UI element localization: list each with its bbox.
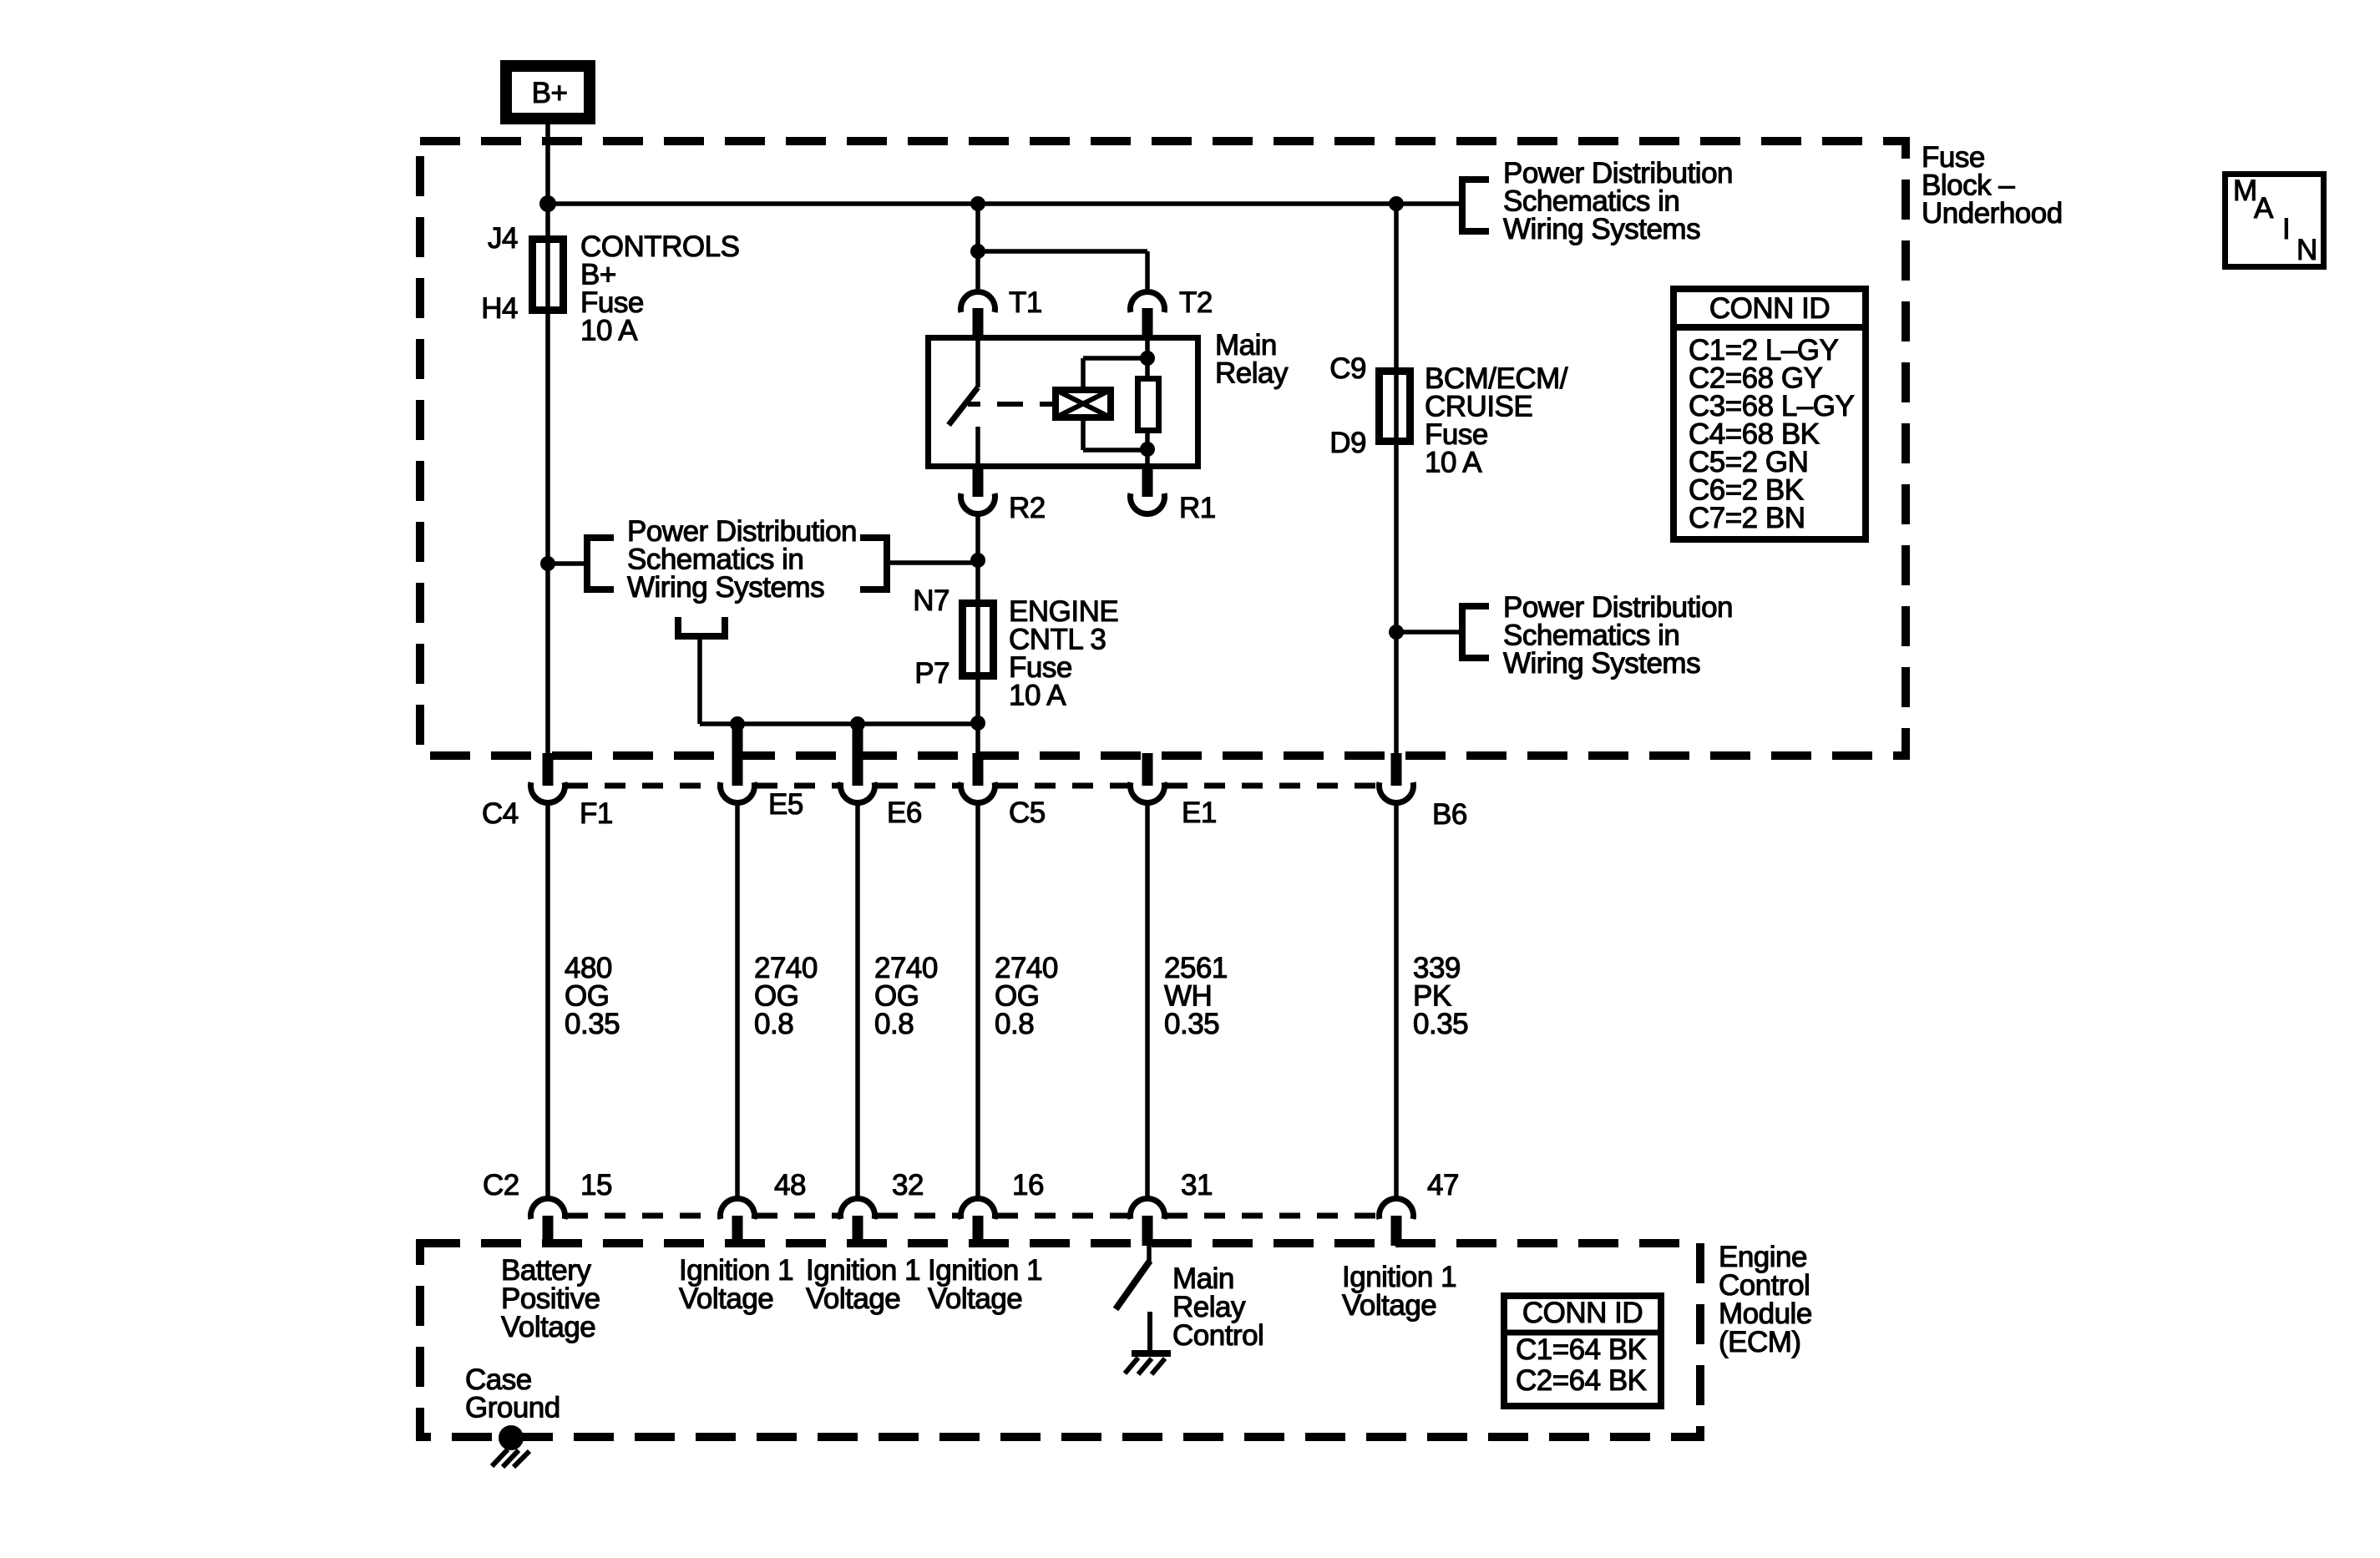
svg-text:Voltage: Voltage: [501, 1311, 595, 1343]
connector T1: [961, 291, 995, 312]
relay switch contact: [975, 341, 980, 387]
svg-text:C7=2 BN: C7=2 BN: [1689, 502, 1805, 534]
relay coil: [1056, 390, 1111, 417]
svg-text:10 A: 10 A: [1009, 680, 1066, 712]
relay actuator dashed link: [968, 402, 1052, 407]
svg-text:(ECM): (ECM): [1719, 1326, 1801, 1358]
connector T2: [1131, 291, 1165, 312]
svg-text:32: 32: [892, 1169, 924, 1201]
MAIN page tag: [2226, 175, 2324, 267]
svg-text:C5: C5: [1009, 797, 1046, 829]
fuse N7/P7 ENGINE CNTL 3 10 A: [963, 604, 994, 676]
svg-text:10 A: 10 A: [580, 315, 638, 347]
svg-text:0.8: 0.8: [754, 1008, 793, 1040]
wire 2561 WH 0.35: [1145, 804, 1150, 1197]
wire bus to BCM fuse down to B6: [1394, 204, 1399, 756]
connector row C2 (harness to ECM): [567, 1213, 718, 1219]
main relay box: [929, 338, 1198, 467]
wire 2740 OG 0.8: [855, 804, 860, 1197]
svg-text:C4: C4: [482, 797, 519, 830]
connector terminal E6: [853, 753, 863, 786]
svg-text:I: I: [2282, 213, 2290, 245]
wire bus to T1: [975, 204, 980, 289]
ground (main relay control): [1147, 1312, 1152, 1353]
bracket stub to ignition wires: [678, 617, 725, 636]
power distribution reference (top right): [1462, 180, 1489, 231]
svg-text:C2: C2: [483, 1169, 519, 1201]
svg-text:C9: C9: [1329, 352, 1366, 385]
svg-text:Underhood: Underhood: [1922, 197, 2063, 230]
CONN ID table (fuse block): [1674, 289, 1866, 539]
connector terminal C5: [973, 753, 984, 786]
svg-text:47: 47: [1427, 1169, 1459, 1201]
svg-text:Voltage: Voltage: [1342, 1289, 1436, 1322]
battery feed B+ box: [506, 66, 590, 119]
svg-text:16: 16: [1012, 1169, 1044, 1201]
ground (case): [492, 1449, 508, 1466]
svg-text:CONN ID: CONN ID: [1522, 1297, 1643, 1329]
relay internal resistor: [1138, 379, 1159, 431]
connector terminal 31: [1131, 1198, 1165, 1219]
wire E5 stub (pin): [732, 726, 743, 756]
svg-text:Wiring Systems: Wiring Systems: [1503, 647, 1700, 680]
node coil top: [1140, 351, 1155, 366]
node E5 tap: [730, 716, 745, 731]
node E6 tap: [850, 716, 865, 731]
node bus junction to BCM fuse: [1389, 196, 1404, 211]
node tap to schematics reference: [540, 556, 555, 571]
svg-text:T2: T2: [1179, 286, 1213, 319]
bracket to relay control wire: [860, 538, 887, 589]
connector terminal B6: [1391, 753, 1402, 786]
node R2/reference junction: [970, 553, 985, 568]
svg-text:10 A: 10 A: [1425, 447, 1482, 479]
svg-text:Voltage: Voltage: [679, 1282, 773, 1315]
wire 2740 OG 0.8: [975, 804, 980, 1197]
wire 339 PK 0.35: [1394, 804, 1399, 1197]
svg-text:N: N: [2296, 234, 2317, 266]
svg-text:Wiring Systems: Wiring Systems: [627, 571, 824, 604]
connector row C4/C2 (fuse block to harness): [567, 783, 718, 789]
svg-text:E5: E5: [768, 788, 803, 821]
wire horizontal to E5/E6/C5: [700, 721, 978, 726]
wire to reference bracket: [548, 561, 587, 566]
svg-text:Wiring Systems: Wiring Systems: [1503, 213, 1700, 245]
fuse J4/H4 CONTROLS B+ 10 A: [533, 240, 564, 311]
svg-text:C2=64 BK: C2=64 BK: [1516, 1364, 1647, 1397]
svg-text:Control: Control: [1172, 1319, 1263, 1352]
fuse C9/D9 BCM/ECM/CRUISE 10 A: [1380, 372, 1410, 442]
connector terminal 16: [961, 1198, 995, 1219]
svg-text:0.35: 0.35: [1164, 1008, 1219, 1040]
node coil bottom: [1140, 442, 1155, 457]
svg-text:Voltage: Voltage: [806, 1282, 900, 1315]
svg-text:0.35: 0.35: [1413, 1008, 1468, 1040]
connector R2: [973, 469, 984, 497]
svg-text:B+: B+: [532, 77, 568, 109]
wire R2 down through fuse: [975, 516, 980, 756]
connector terminal C4: [543, 753, 554, 786]
svg-text:P7: P7: [914, 657, 949, 690]
connector terminal 47: [1380, 1198, 1414, 1219]
wire resistor to R1: [1145, 433, 1150, 466]
node tap to schematics reference: [1389, 625, 1404, 640]
svg-text:0.35: 0.35: [565, 1008, 620, 1040]
svg-text:D9: D9: [1329, 427, 1366, 459]
wire 480 OG 0.35: [545, 804, 550, 1197]
svg-text:C1=64 BK: C1=64 BK: [1516, 1333, 1647, 1366]
svg-text:48: 48: [774, 1169, 806, 1201]
connector terminal E5: [732, 753, 743, 786]
svg-text:F1: F1: [580, 797, 613, 830]
svg-text:H4: H4: [481, 292, 518, 325]
node case ground on ECM border: [499, 1425, 524, 1450]
connector terminal 15: [531, 1198, 565, 1219]
CONN ID table (ECM): [1504, 1296, 1661, 1406]
wire B+ bus: [548, 201, 1459, 206]
wire reference to R2 node: [887, 560, 978, 565]
wire E6 stub (pin): [853, 726, 863, 756]
wire B+ vertical feed: [545, 124, 550, 786]
wire T2 to resistor: [1145, 341, 1150, 376]
wire to T2: [978, 249, 1147, 254]
node bus junction to main relay: [970, 196, 985, 211]
node C5 tap: [970, 716, 985, 731]
svg-text:Ground: Ground: [465, 1392, 560, 1424]
svg-text:0.8: 0.8: [995, 1008, 1034, 1040]
wire 2740 OG 0.8: [735, 804, 740, 1197]
svg-text:31: 31: [1181, 1169, 1213, 1201]
svg-text:15: 15: [580, 1169, 612, 1201]
svg-text:T1: T1: [1009, 286, 1042, 319]
svg-text:Voltage: Voltage: [928, 1282, 1022, 1315]
node T1/T2 split: [970, 244, 985, 259]
wire stub down: [697, 638, 702, 724]
main relay control driver switch: [1147, 1246, 1152, 1262]
connector terminal 32: [841, 1198, 875, 1219]
svg-text:J4: J4: [488, 222, 518, 255]
svg-text:Relay: Relay: [1215, 357, 1289, 390]
svg-text:N7: N7: [913, 584, 949, 617]
svg-text:0.8: 0.8: [874, 1008, 914, 1040]
connector terminal 48: [721, 1198, 755, 1219]
svg-text:B6: B6: [1432, 798, 1467, 831]
fuse block - underhood dashed border: [420, 141, 1906, 756]
engine control module (ECM) dashed border: [420, 1243, 1700, 1437]
svg-text:A: A: [2254, 192, 2274, 225]
connector R1: [1142, 469, 1153, 497]
node bus junction at J4 feed: [539, 195, 556, 212]
svg-text:E6: E6: [887, 797, 922, 829]
svg-text:E1: E1: [1182, 797, 1217, 829]
svg-text:R2: R2: [1009, 492, 1046, 524]
svg-text:CONN ID: CONN ID: [1709, 292, 1830, 325]
connector terminal E1: [1142, 753, 1153, 786]
svg-text:R1: R1: [1179, 492, 1216, 524]
